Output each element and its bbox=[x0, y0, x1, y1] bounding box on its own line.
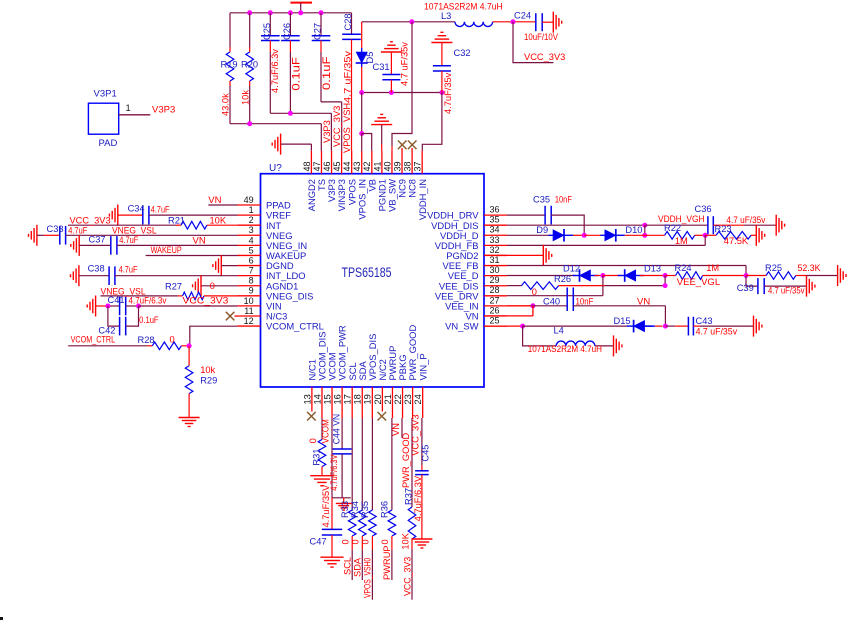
capacitor C35 bbox=[507, 194, 584, 235]
junction dot VDDH_FB bbox=[703, 233, 708, 238]
svg-text:6: 6 bbox=[249, 255, 254, 265]
svg-text:VCOM_CTRL: VCOM_CTRL bbox=[266, 321, 324, 332]
resistor R37 bbox=[401, 418, 416, 600]
svg-text:4.7 uF/35v: 4.7 uF/35v bbox=[400, 42, 410, 86]
svg-text:31: 31 bbox=[490, 255, 500, 265]
svg-text:VCOM: VCOM bbox=[320, 419, 330, 443]
svg-text:1: 1 bbox=[126, 103, 131, 113]
svg-text:C31: C31 bbox=[373, 62, 390, 72]
svg-text:1M: 1M bbox=[706, 263, 719, 273]
svg-text:1071AS2R2M 4.7uH: 1071AS2R2M 4.7uH bbox=[424, 2, 503, 12]
svg-text:43: 43 bbox=[352, 161, 362, 171]
svg-text:L3: L3 bbox=[441, 11, 451, 21]
svg-text:0.1uF: 0.1uF bbox=[291, 57, 303, 91]
ground right of PGND2 bbox=[484, 245, 552, 266]
svg-text:C45: C45 bbox=[421, 445, 431, 462]
capacitor C38 bbox=[79, 264, 238, 286]
ground above C32 bbox=[431, 32, 452, 45]
svg-text:10k: 10k bbox=[240, 90, 250, 105]
svg-text:40: 40 bbox=[382, 161, 392, 171]
ground below R31 bbox=[310, 476, 334, 486]
svg-text:D15: D15 bbox=[614, 316, 631, 326]
ground right of R25 bbox=[838, 265, 846, 286]
svg-text:15: 15 bbox=[322, 394, 332, 404]
IC left pins 49,1-12 stubs+names bbox=[238, 195, 324, 332]
resistor R23 bbox=[705, 224, 756, 246]
svg-text:9: 9 bbox=[249, 286, 254, 296]
resistor R36 bbox=[380, 418, 396, 580]
ground above C31 bbox=[381, 42, 402, 55]
ground below C47 bbox=[320, 557, 343, 567]
capacitor C44 bbox=[329, 414, 351, 498]
ground right of C24 bbox=[553, 12, 561, 33]
svg-text:R26: R26 bbox=[554, 274, 571, 284]
svg-text:TPS65185: TPS65185 bbox=[342, 265, 392, 280]
svg-text:R20: R20 bbox=[241, 60, 258, 70]
svg-text:C44 VN: C44 VN bbox=[332, 414, 342, 444]
capacitor C41 bbox=[96, 295, 167, 315]
svg-text:4.7uF: 4.7uF bbox=[68, 226, 87, 236]
svg-text:24: 24 bbox=[413, 394, 423, 404]
ground small below C44 bbox=[336, 498, 352, 510]
svg-text:33: 33 bbox=[490, 235, 500, 245]
capacitor C39 bbox=[737, 276, 807, 296]
junction dot VEE_DRV node bbox=[600, 273, 605, 278]
resistor R33 bbox=[340, 418, 356, 580]
svg-text:5: 5 bbox=[249, 245, 254, 255]
svg-text:14: 14 bbox=[312, 394, 322, 404]
svg-text:4: 4 bbox=[249, 235, 254, 245]
svg-text:4.7uF/35V: 4.7uF/35V bbox=[321, 484, 331, 528]
resistor R34 bbox=[350, 418, 366, 580]
svg-text:R25: R25 bbox=[765, 263, 782, 273]
junction dot VEE_VGL node bbox=[663, 273, 668, 278]
svg-text:19: 19 bbox=[363, 394, 373, 404]
junction dots on top bus bbox=[247, 10, 323, 15]
wire VEE_DRV pin28 bbox=[507, 276, 603, 296]
op-amp U1 TPS65185 IC body bbox=[261, 163, 485, 387]
svg-text:12: 12 bbox=[244, 316, 254, 326]
svg-text:4.7uF/6.3V: 4.7uF/6.3V bbox=[413, 475, 423, 521]
resistor R22 bbox=[645, 223, 705, 246]
svg-text:39: 39 bbox=[392, 161, 402, 171]
svg-text:1: 1 bbox=[249, 205, 254, 215]
ground right of L4 bbox=[614, 335, 622, 356]
svg-text:0: 0 bbox=[170, 334, 175, 344]
svg-text:C27: C27 bbox=[313, 23, 323, 40]
junction dot R28-R29 bbox=[187, 343, 192, 348]
capacitor C32 bbox=[433, 45, 471, 114]
svg-text:R22: R22 bbox=[664, 223, 681, 233]
svg-text:0: 0 bbox=[340, 539, 350, 544]
wire VCOM_CTRL from pin12 bbox=[190, 326, 238, 346]
resistor R20 bbox=[240, 13, 258, 124]
svg-text:VCC_3V3: VCC_3V3 bbox=[403, 557, 413, 596]
sheet border corner bbox=[0, 617, 3, 620]
svg-text:20: 20 bbox=[373, 394, 383, 404]
svg-text:C24: C24 bbox=[514, 11, 531, 21]
svg-text:WAKEUP: WAKEUP bbox=[151, 245, 182, 255]
svg-text:VDDH_IN: VDDH_IN bbox=[417, 179, 428, 220]
junction dot VN node bbox=[663, 324, 668, 329]
svg-text:4.7uF/35v: 4.7uF/35v bbox=[443, 72, 453, 114]
svg-text:2: 2 bbox=[249, 215, 254, 225]
svg-text:R19: R19 bbox=[221, 60, 238, 70]
wire D5 node to VB pins bbox=[359, 93, 372, 151]
wire VN pin26 bbox=[484, 306, 533, 316]
ground left of C38 bbox=[71, 265, 79, 286]
power bar V3P3 top bbox=[290, 3, 312, 13]
svg-text:36: 36 bbox=[490, 205, 500, 215]
svg-text:PAD: PAD bbox=[99, 138, 118, 149]
svg-text:38: 38 bbox=[403, 161, 413, 171]
svg-text:10nF: 10nF bbox=[555, 195, 572, 205]
capacitor C42 bbox=[98, 306, 158, 336]
wire TS net to pin47 bbox=[230, 121, 321, 151]
svg-text:48: 48 bbox=[302, 161, 312, 171]
capacitor C31 bbox=[373, 42, 410, 93]
svg-text:VCC_3V3: VCC_3V3 bbox=[410, 414, 420, 455]
wire VPOS rail bbox=[359, 90, 444, 95]
svg-text:VEE_VGL: VEE_VGL bbox=[677, 277, 720, 288]
resistor R28 bbox=[68, 334, 190, 349]
svg-text:C33: C33 bbox=[47, 224, 64, 234]
svg-text:R28: R28 bbox=[138, 335, 155, 345]
svg-text:R21: R21 bbox=[168, 215, 185, 225]
ground left of C41 bbox=[87, 296, 95, 317]
svg-text:4.7uF/6.3v: 4.7uF/6.3v bbox=[270, 49, 280, 93]
svg-text:C37: C37 bbox=[89, 234, 106, 244]
svg-text:47: 47 bbox=[312, 161, 322, 171]
svg-text:23: 23 bbox=[403, 394, 413, 404]
svg-text:3: 3 bbox=[249, 225, 254, 235]
ground left of DGND pin6 bbox=[213, 255, 238, 276]
ground below R29 bbox=[179, 418, 200, 427]
svg-text:0.1uF: 0.1uF bbox=[139, 315, 159, 325]
svg-text:10K: 10K bbox=[401, 532, 411, 549]
wire V3P1 pin1 bbox=[119, 114, 151, 116]
IC top pins 48-37 stubs+names bbox=[302, 148, 428, 220]
junction dot VEE_FB node bbox=[744, 273, 749, 278]
diode D5 bbox=[356, 22, 375, 93]
svg-text:27: 27 bbox=[490, 295, 500, 305]
svg-text:VCC_3V3: VCC_3V3 bbox=[183, 296, 229, 306]
svg-text:10uF/10V: 10uF/10V bbox=[524, 32, 559, 42]
wire VB_SW riser bbox=[392, 22, 412, 151]
wire VN branch down bbox=[664, 306, 666, 326]
svg-text:C43: C43 bbox=[696, 316, 713, 326]
svg-text:C38: C38 bbox=[88, 264, 105, 274]
ground right of C39 bbox=[807, 276, 815, 297]
wire VEE_FB pin31 bbox=[507, 266, 746, 276]
svg-text:VIN_P: VIN_P bbox=[417, 353, 428, 380]
no-connect X pin11 bbox=[226, 312, 238, 321]
svg-text:C39: C39 bbox=[737, 283, 754, 293]
svg-text:VCC_3V3: VCC_3V3 bbox=[70, 216, 111, 226]
svg-text:R35: R35 bbox=[360, 501, 370, 518]
svg-text:C35: C35 bbox=[533, 194, 550, 204]
svg-text:47.5K: 47.5K bbox=[724, 236, 749, 246]
svg-text:L4: L4 bbox=[554, 325, 564, 335]
wire VN to PPAD bbox=[208, 195, 237, 206]
svg-text:44: 44 bbox=[342, 161, 352, 171]
svg-text:43.0k: 43.0k bbox=[220, 93, 230, 116]
ground left of AGND1 pin8 bbox=[193, 275, 238, 296]
svg-text:SCL: SCL bbox=[342, 557, 352, 575]
svg-text:C40: C40 bbox=[543, 297, 560, 307]
svg-text:4.7 uF/35v: 4.7 uF/35v bbox=[768, 286, 805, 296]
svg-text:8: 8 bbox=[249, 276, 254, 286]
svg-text:42: 42 bbox=[362, 161, 372, 171]
capacitor C27 bbox=[312, 13, 333, 102]
svg-text:R31: R31 bbox=[311, 449, 321, 466]
wire WAKEUP bbox=[146, 245, 238, 256]
no-connect X pin20 bbox=[378, 412, 387, 421]
svg-text:16: 16 bbox=[333, 394, 343, 404]
svg-text:VN: VN bbox=[637, 296, 650, 307]
wire VDDH_DIS pin35 bbox=[507, 223, 647, 238]
inductor L4 bbox=[523, 325, 614, 354]
svg-text:VPOS_VSH: VPOS_VSH bbox=[342, 103, 352, 153]
svg-text:R33: R33 bbox=[340, 501, 350, 518]
diode D15 bbox=[614, 316, 663, 332]
svg-text:0: 0 bbox=[210, 281, 215, 291]
svg-text:D13: D13 bbox=[644, 264, 661, 274]
svg-text:52.3K: 52.3K bbox=[798, 263, 822, 273]
wire VN_SW pin25 bbox=[484, 324, 627, 329]
svg-text:1M: 1M bbox=[675, 236, 688, 246]
svg-text:34: 34 bbox=[490, 225, 500, 235]
svg-text:37: 37 bbox=[413, 161, 423, 171]
svg-text:V3P3: V3P3 bbox=[152, 105, 175, 116]
svg-text:21: 21 bbox=[383, 394, 393, 404]
svg-text:4.7uF: 4.7uF bbox=[119, 235, 138, 245]
svg-text:C32: C32 bbox=[454, 48, 471, 58]
svg-text:45: 45 bbox=[332, 161, 342, 171]
capacitor C25 bbox=[261, 13, 280, 114]
wire VCC_3V3 net at C24 bbox=[513, 22, 565, 63]
no-connect X pin39 bbox=[398, 141, 407, 150]
capacitor C33 bbox=[37, 224, 238, 245]
svg-text:0: 0 bbox=[308, 438, 318, 443]
svg-text:1071AS2R2M 4.7uH: 1071AS2R2M 4.7uH bbox=[528, 344, 602, 354]
ground right end VGH bbox=[776, 215, 784, 236]
connector V3P1 PAD bbox=[88, 89, 130, 150]
IC right pins 36-25 stubs+names bbox=[427, 205, 507, 332]
svg-text:V3P3: V3P3 bbox=[322, 120, 332, 143]
resistor R19 bbox=[220, 13, 237, 124]
ground left of C34 bbox=[109, 205, 117, 226]
diode D12 bbox=[507, 264, 603, 282]
inductor L3 bbox=[424, 2, 503, 27]
svg-text:R27: R27 bbox=[165, 282, 182, 292]
wire VCC_3V3 at VIN bbox=[139, 296, 238, 307]
capacitor C40 bbox=[507, 288, 665, 312]
svg-text:PWRUP: PWRUP bbox=[382, 545, 392, 580]
svg-text:41: 41 bbox=[372, 161, 382, 171]
svg-text:D10: D10 bbox=[625, 225, 642, 235]
svg-text:11: 11 bbox=[244, 306, 253, 316]
svg-text:VCC_3V3: VCC_3V3 bbox=[332, 106, 342, 147]
svg-text:R29: R29 bbox=[200, 376, 217, 386]
svg-text:4.7uF: 4.7uF bbox=[151, 205, 170, 215]
svg-text:10: 10 bbox=[244, 296, 254, 306]
resistor R31 bbox=[308, 418, 326, 476]
svg-text:VN: VN bbox=[193, 236, 206, 247]
capacitor C45 bbox=[410, 414, 430, 539]
svg-text:4.7 uF/35v: 4.7 uF/35v bbox=[726, 215, 765, 225]
ground left of C33 bbox=[29, 225, 37, 246]
svg-text:10nF: 10nF bbox=[576, 297, 594, 307]
svg-text:D12: D12 bbox=[563, 264, 580, 274]
wire VB_SW top rail bbox=[362, 19, 455, 24]
resistor R26 bbox=[507, 274, 665, 297]
svg-text:4.7 uF/35v: 4.7 uF/35v bbox=[696, 327, 738, 337]
IC bottom pins 13-24 stubs+names bbox=[302, 325, 428, 418]
wire L3 to C24 bbox=[493, 19, 536, 24]
wire VEE_VGL branch bbox=[663, 276, 721, 289]
svg-text:C28: C28 bbox=[343, 13, 353, 30]
svg-text:13: 13 bbox=[302, 394, 312, 404]
svg-text:29: 29 bbox=[490, 275, 500, 285]
wire VCOM to gnd stem bbox=[332, 497, 351, 499]
svg-text:10K: 10K bbox=[210, 215, 227, 225]
svg-text:4.7 uF/35v: 4.7 uF/35v bbox=[342, 51, 352, 103]
diode D9 bbox=[507, 225, 584, 242]
svg-text:25: 25 bbox=[490, 315, 500, 325]
svg-text:R23: R23 bbox=[715, 224, 732, 234]
svg-text:D9: D9 bbox=[536, 225, 548, 235]
svg-text:C36: C36 bbox=[695, 204, 712, 214]
ground above PGND1 pin41 bbox=[371, 114, 392, 150]
capacitor C36 bbox=[645, 204, 776, 234]
capacitor C26 bbox=[281, 13, 302, 114]
svg-text:C26: C26 bbox=[282, 23, 292, 40]
svg-text:10k: 10k bbox=[200, 365, 215, 375]
svg-text:VNEG_VSL: VNEG_VSL bbox=[112, 226, 157, 236]
resistor R25 bbox=[746, 263, 838, 279]
svg-text:C41: C41 bbox=[108, 295, 125, 305]
svg-text:VN: VN bbox=[391, 423, 401, 436]
svg-text:0.1uF: 0.1uF bbox=[321, 56, 333, 90]
svg-text:C25: C25 bbox=[262, 23, 272, 40]
resistor R29 bbox=[185, 346, 217, 418]
resistor R21 bbox=[68, 215, 238, 229]
resistor R35 bbox=[360, 418, 376, 600]
wire top bus bbox=[230, 12, 352, 14]
capacitor C47 bbox=[310, 484, 343, 557]
svg-text:VPOS_VSH0: VPOS_VSH0 bbox=[363, 558, 373, 598]
capacitor C43 bbox=[665, 316, 753, 337]
svg-text:C47: C47 bbox=[310, 537, 327, 547]
svg-text:22: 22 bbox=[393, 394, 403, 404]
svg-text:VN_SW: VN_SW bbox=[445, 321, 478, 332]
svg-text:4.7uF/6.3v: 4.7uF/6.3v bbox=[129, 296, 167, 306]
resistor R24 bbox=[665, 263, 746, 279]
svg-text:0: 0 bbox=[361, 539, 371, 544]
svg-text:26: 26 bbox=[490, 305, 500, 315]
diode D10 bbox=[584, 225, 645, 242]
svg-text:V3P1: V3P1 bbox=[94, 89, 117, 100]
svg-text:30: 30 bbox=[490, 265, 500, 275]
svg-text:C34: C34 bbox=[128, 204, 145, 214]
capacitor C37 bbox=[79, 234, 237, 254]
ground right of C43 bbox=[754, 316, 762, 337]
ground right of R23 bbox=[756, 225, 764, 246]
ground left of ANGD2 pin48 bbox=[272, 134, 311, 155]
svg-text:R37: R37 bbox=[404, 488, 414, 505]
svg-text:SDA: SDA bbox=[352, 557, 362, 577]
svg-text:R24: R24 bbox=[675, 263, 692, 273]
capacitor C28 bbox=[342, 13, 361, 153]
svg-text:0: 0 bbox=[351, 539, 361, 544]
svg-text:35: 35 bbox=[490, 215, 500, 225]
wire VCOM pin15 bbox=[320, 418, 332, 498]
ground left of C37 bbox=[71, 235, 79, 256]
capacitor C24 bbox=[514, 11, 559, 43]
svg-text:18: 18 bbox=[353, 394, 363, 404]
no-connect X pin13 bbox=[307, 412, 316, 421]
junction dot C35 node bbox=[582, 233, 587, 238]
wire VDDH_FB pin33 bbox=[507, 235, 705, 245]
svg-text:U?: U? bbox=[269, 163, 282, 174]
svg-text:4.7uF: 4.7uF bbox=[119, 264, 138, 274]
wire PBKG pin22 bbox=[391, 418, 402, 438]
svg-text:28: 28 bbox=[490, 285, 500, 295]
ground below C45 bbox=[411, 539, 432, 548]
wire VCC_3V3 to pin45 bbox=[321, 102, 342, 151]
svg-text:49: 49 bbox=[244, 195, 254, 205]
svg-text:VCOM_CTRL: VCOM_CTRL bbox=[71, 335, 116, 345]
svg-text:R34: R34 bbox=[350, 501, 360, 518]
no-connect X pin38 bbox=[408, 141, 417, 150]
diode D13 bbox=[603, 264, 665, 282]
svg-text:17: 17 bbox=[343, 394, 353, 404]
svg-text:0: 0 bbox=[380, 539, 390, 544]
wire VPOS to VDDH_IN pin37 bbox=[422, 93, 442, 151]
svg-text:32: 32 bbox=[490, 245, 500, 255]
capacitor C34 bbox=[118, 204, 238, 225]
node V3P3 bbox=[152, 105, 175, 116]
svg-text:VN: VN bbox=[208, 195, 221, 206]
svg-text:R36: R36 bbox=[380, 501, 390, 518]
wire V3P3 to pin46 bbox=[270, 111, 332, 151]
resistor R27 bbox=[101, 281, 238, 300]
svg-text:46: 46 bbox=[322, 161, 332, 171]
svg-text:7: 7 bbox=[249, 266, 254, 276]
svg-text:VCC_3V3: VCC_3V3 bbox=[524, 52, 565, 62]
